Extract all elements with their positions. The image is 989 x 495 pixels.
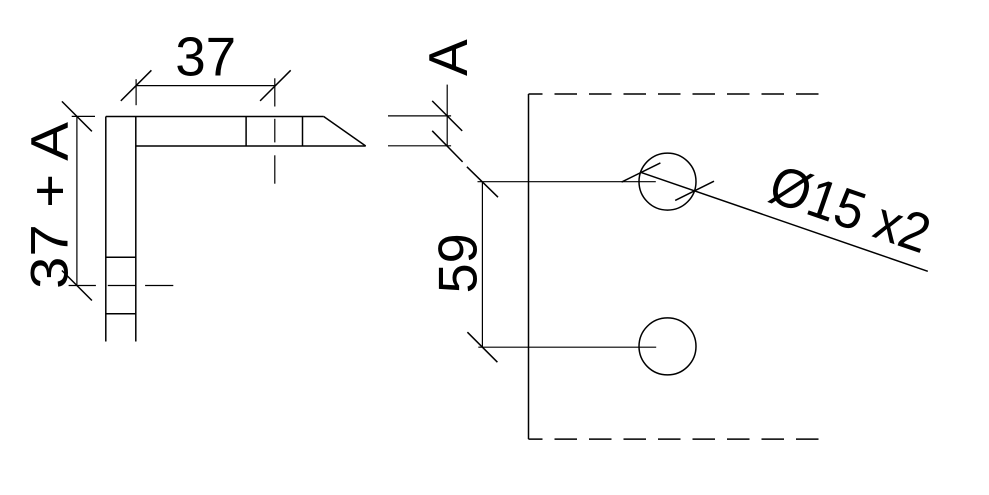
svg-text:37: 37 — [175, 26, 236, 88]
svg-text:A: A — [417, 39, 479, 76]
svg-text:59: 59 — [426, 233, 488, 293]
svg-text:37 + A: 37 + A — [21, 121, 80, 289]
